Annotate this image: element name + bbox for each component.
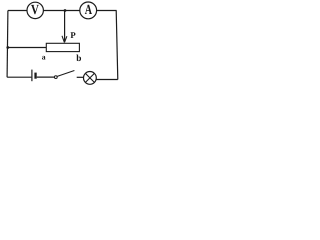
battery negative plate (short thick): [34, 73, 36, 79]
lamp L: [84, 72, 97, 85]
wire bottom-left segment: [7, 76, 31, 78]
svg-text:b: b: [76, 54, 81, 64]
svg-text:P: P: [70, 30, 76, 40]
wire switch to lamp: [77, 76, 84, 78]
label V: [31, 3, 39, 18]
switch S lever: [57, 71, 74, 77]
wire battery to switch: [37, 76, 55, 78]
voltmeter V: [27, 2, 43, 18]
wiper arrow: [62, 36, 67, 43]
wire left rail: [6, 11, 9, 78]
svg-text:V: V: [31, 3, 39, 18]
wire top-left segment: [8, 10, 27, 12]
switch S pivot contact: [54, 76, 57, 79]
wire branch to rheostat end a: [8, 47, 47, 49]
wire top-right segment: [97, 10, 117, 12]
ammeter A: [80, 2, 97, 19]
wire bottom-right segment: [96, 79, 118, 81]
label A: [85, 3, 93, 18]
junction node: rheostat branch on left rail: [6, 46, 9, 49]
wire between voltmeter and ammeter: [44, 10, 80, 12]
svg-text:A: A: [85, 3, 93, 18]
wire wiper drop: [64, 11, 66, 42]
rheostat P resistance body: [46, 43, 79, 51]
svg-text:a: a: [42, 52, 46, 61]
junction node: wiper tap on top wire: [64, 9, 67, 12]
wire right rail: [116, 11, 118, 80]
battery positive plate (long thin): [31, 70, 33, 82]
